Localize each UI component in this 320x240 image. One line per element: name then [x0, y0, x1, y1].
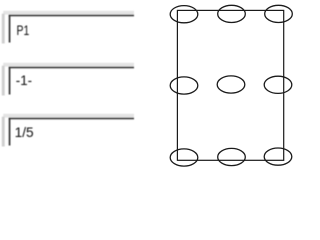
grey left bar P1: [2, 14, 5, 44]
pad B3 (middle-right): [264, 76, 292, 93]
wire: left edge 1/5: [9, 118, 11, 146]
pad A3 (top-right): [265, 5, 293, 22]
off-page connector 1/5: [2, 114, 134, 147]
wire: top edge 1/5: [9, 118, 134, 120]
connector body outline: [177, 10, 283, 160]
pad A2 (top-center): [218, 5, 246, 22]
svg-text:-1-: -1-: [16, 72, 33, 88]
grey left bar 1/5: [2, 117, 5, 147]
off-page connector -1-: [2, 63, 134, 96]
wire: left edge P1: [9, 15, 11, 43]
svg-text:1/5: 1/5: [15, 124, 34, 140]
svg-text:P1: P1: [17, 22, 30, 38]
off-page connector P1: [2, 11, 134, 44]
grey highlight band P1: [3, 11, 134, 15]
wire: top edge -1-: [9, 67, 134, 69]
wire: left edge -1-: [9, 67, 11, 95]
wire: top edge P1: [9, 15, 134, 17]
grey highlight band 1/5: [3, 114, 134, 118]
pad B1 (middle-left): [170, 77, 198, 94]
pad B2 (middle-center): [217, 76, 245, 93]
pad A1 (top-left): [170, 6, 198, 23]
grey highlight band -1-: [3, 63, 134, 67]
pad C2 (bottom-center): [218, 148, 246, 165]
pad C3 (bottom-right): [264, 148, 292, 165]
pad C1 (bottom-left): [170, 149, 198, 166]
grey left bar -1-: [2, 66, 5, 96]
